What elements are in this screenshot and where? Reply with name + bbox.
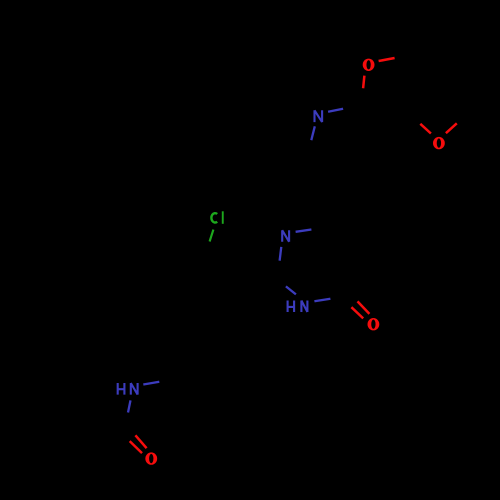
atom label O amide (carboxamide oxygen) [145,452,157,464]
atom label N top (amine nitrogen) [315,110,323,122]
double bond C4=O4 line 2 (oxygen half) [351,307,363,318]
bond N1-C2 (nitrogen half) [280,247,282,261]
double bond amide C=O line 2 (oxygen half) [130,441,142,453]
bond amide N-phenyl (nitrogen half) [143,382,159,385]
bond O2-CH2right (oxygen half) [446,123,457,133]
bond Ntop-Cq (nitrogen half) [328,109,343,112]
wire: ring C2 to N3 (carbon half) [277,276,286,286]
wire: amide C to cyclopropyl [85,424,124,436]
bond N1-C6 (nitrogen half) [296,230,312,232]
wire: oxetane CH2 left to O2 (carbon half) [404,108,420,124]
wire: amide C=O (carbon halves of double bond) [124,424,135,435]
bond amide N-C(=O) (nitrogen half) [128,400,131,412]
wire: CH2 chain down to ring C6 [305,165,343,218]
wire: ring C2 to N1 (carbon half) [277,261,280,276]
wire: ring C4 to N3 (carbon half) [330,292,349,299]
bond Ntop-CH2 (nitrogen half) [311,126,315,140]
bond Cl-phenyl (chlorine half) [210,230,214,242]
wire: ring C6 to C5 [343,218,363,252]
atom label O4 (ring carbonyl oxygen) [368,318,380,330]
wire: quaternary C to oxetane C3 [359,71,439,101]
double bond C4=O4 line 1 (oxygen half) [358,301,370,314]
wire: ring C2 to phenyl C1' [246,276,277,281]
wire: methoxy CH3 to O1 (carbon half) [395,50,424,59]
double bond amide C=O line 1 (oxygen half) [135,435,146,448]
wire: phenyl C-Cl (carbon half) [207,241,210,258]
atom label HN amide [118,383,138,395]
wire: ring C5 to C4 [349,252,363,292]
cyclopropane ring [47,426,85,451]
bond O1-CH3 (oxygen half) [379,58,395,61]
wire: amide N to carbonyl C (carbon half) [124,413,128,425]
bond O2-CH2left (oxygen half) [420,124,431,134]
carbon skeleton (black bonds, invisible on black background) [47,50,473,452]
wire: quaternary C to N top (carbon half) [343,101,358,109]
wire: ring C4 to O4 carbonyl (carbon halves of double bond) [349,292,358,301]
wire: phenyl to amide N (carbon half) [159,372,186,382]
wire: N top to CH2 chain (carbon half) [305,140,311,165]
wire: O1 to quaternary C (carbon half) [359,88,364,100]
wire: ring C6 to N1 (carbon half) [311,218,343,230]
wire: oxetane CH2 right to O2 (carbon half) [457,108,473,124]
atom label HN3 (ring NH) [288,301,308,313]
wire: oxetane C3 to CH2 right [439,71,474,108]
atom label O2 (oxetane oxygen) [433,137,445,149]
bond N3-C2 (nitrogen half) [286,286,296,294]
bond O1-Cq (oxygen half) [363,76,364,89]
phenyl ring (2-chlorophenyl) [168,258,246,372]
atom label Cl (chlorine) [211,211,222,224]
atom label N1 (ring nitrogen) [282,230,289,242]
atom label O1 (methoxy oxygen) [363,59,375,71]
wire: oxetane C3 to CH2 left [404,71,439,108]
bond N3-C4 (nitrogen half) [314,299,330,302]
